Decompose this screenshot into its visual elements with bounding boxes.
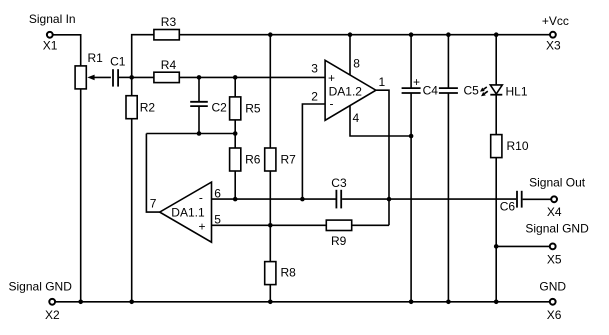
svg-text:R9: R9 — [331, 234, 347, 248]
wire DA1.2 pin 8 — [349, 35, 351, 75]
svg-text:7: 7 — [150, 196, 157, 210]
wire R1 bottom to ground rail — [80, 89, 82, 302]
wire R5 bottom lead — [234, 120, 236, 134]
svg-text:X6: X6 — [547, 308, 562, 322]
node A junction — [129, 75, 134, 80]
LED HL1 diode — [490, 85, 502, 95]
wire DA1.2 output pin 1 — [376, 90, 389, 225]
svg-text:R2: R2 — [140, 101, 156, 115]
resistor R7 body — [265, 148, 276, 171]
node C2 bottom junction — [197, 131, 202, 136]
resistor R10 body — [491, 135, 502, 158]
svg-text:C6: C6 — [500, 199, 516, 213]
wire R5 top lead — [234, 77, 236, 97]
LED HL1 arrows — [480, 87, 488, 96]
capacitor C2 — [190, 102, 208, 106]
svg-text:R8: R8 — [281, 266, 297, 280]
node pin 4 junction — [409, 134, 414, 139]
wire R8 bottom lead — [269, 285, 271, 302]
svg-text:-: - — [199, 191, 203, 205]
wire node A down to R2 — [131, 77, 133, 95]
svg-text:C5: C5 — [464, 84, 480, 98]
wire DA1.1 output up — [146, 134, 159, 213]
svg-text:X4: X4 — [547, 205, 562, 219]
node pin2 C3 junction — [300, 197, 305, 202]
svg-text:DA1.2: DA1.2 — [329, 85, 363, 99]
wire R7 bottom lead — [269, 171, 271, 225]
wire node A up to R3 — [132, 35, 154, 78]
svg-text:R10: R10 — [507, 139, 529, 153]
svg-text:+Vcc: +Vcc — [542, 14, 569, 28]
resistor R3 body — [154, 30, 179, 40]
wire DA1.1 pin 6 line — [212, 198, 336, 200]
svg-text:X3: X3 — [546, 39, 561, 53]
svg-text:4: 4 — [353, 111, 360, 125]
node output C3 junction — [387, 197, 392, 202]
node C5 ground junction — [446, 300, 451, 305]
node X5 terminal — [550, 244, 556, 250]
node X2 terminal — [49, 299, 55, 305]
wire C5 bottom lead — [447, 93, 449, 302]
capacitor C5 — [439, 88, 458, 93]
wire R2 bottom to ground rail — [131, 119, 133, 302]
node pin 8 rail junction — [348, 32, 353, 37]
svg-text:R7: R7 — [281, 153, 297, 167]
node X1 terminal — [47, 32, 53, 38]
svg-text:C1: C1 — [110, 54, 126, 68]
svg-text:Signal GND: Signal GND — [525, 221, 589, 235]
svg-text:-: - — [330, 97, 334, 111]
svg-text:DA1.1: DA1.1 — [171, 205, 205, 219]
node C5 rail junction — [446, 32, 451, 37]
capacitor C1 — [113, 69, 118, 86]
wire C2 bottom lead — [198, 106, 200, 133]
wire C4 top lead — [410, 35, 412, 88]
svg-text:C4: C4 — [423, 84, 439, 98]
op-amp U1 DA1.2 triangle — [325, 60, 376, 120]
wire DA1.2 pin 4 — [350, 106, 411, 137]
svg-text:+: + — [413, 75, 420, 89]
wire C3 right to C6 — [342, 198, 516, 200]
wire R9 left to DA1.1 pin 5 — [212, 224, 327, 226]
node C4 rail junction — [409, 32, 414, 37]
node R5 R6 junction — [233, 131, 238, 136]
wire C6 to X4 — [523, 198, 551, 200]
svg-text:R4: R4 — [161, 58, 177, 72]
wire X5 line — [496, 245, 549, 247]
capacitor C3 — [336, 190, 341, 209]
node C2 top junction — [197, 75, 202, 80]
svg-text:C2: C2 — [212, 101, 228, 115]
node R10 ground junction — [494, 300, 499, 305]
wire DA1.2 pin 2 — [302, 104, 325, 199]
svg-text:R1: R1 — [88, 51, 104, 65]
wire node A to R4 — [132, 76, 154, 78]
svg-text:Signal Out: Signal Out — [529, 176, 586, 190]
node R6 bottom junction — [233, 197, 238, 202]
svg-text:R6: R6 — [245, 153, 261, 167]
node R5 top junction — [233, 75, 238, 80]
svg-text:6: 6 — [214, 187, 221, 201]
wire R9 right lead — [352, 224, 389, 226]
wire feedback line y133 — [146, 133, 235, 135]
node X3 terminal — [550, 32, 556, 38]
svg-text:+: + — [199, 220, 206, 234]
svg-text:GND: GND — [539, 279, 566, 293]
wire HL1 to R10 — [495, 95, 497, 135]
wire R8 top lead — [269, 225, 271, 261]
resistor R5 body — [230, 97, 241, 120]
svg-text:C3: C3 — [331, 176, 347, 190]
node HL1 rail junction — [494, 32, 499, 37]
wire X1 to R1 top — [53, 35, 80, 66]
wire C5 top lead — [447, 35, 449, 88]
svg-text:Signal GND: Signal GND — [9, 280, 73, 294]
wire R6 bottom lead — [234, 171, 236, 199]
node R8 ground junction — [268, 300, 273, 305]
node R7 R8 junction — [268, 223, 273, 228]
svg-text:R3: R3 — [161, 15, 177, 29]
wire top rail R3 to X3 — [179, 34, 549, 36]
wire R10 bottom lead — [495, 158, 497, 302]
wire HL1 top lead — [495, 35, 497, 85]
wire C1 to node A — [119, 76, 132, 78]
node R1 ground junction — [78, 300, 83, 305]
svg-text:X2: X2 — [45, 308, 60, 322]
op-amp U2 DA1.1 triangle — [160, 182, 212, 242]
capacitor C6 — [517, 191, 522, 208]
wire R7 top lead — [269, 35, 271, 148]
resistor R1 potentiometer body — [75, 66, 86, 89]
node X4 terminal — [551, 196, 557, 202]
svg-text:2: 2 — [311, 89, 318, 103]
node top rail R7 junction — [268, 32, 273, 37]
resistor R1 wiper arrow — [87, 75, 111, 81]
resistor R9 body — [326, 220, 351, 230]
wire C2 top lead — [198, 77, 200, 101]
svg-text:3: 3 — [311, 61, 318, 75]
node C4 ground junction — [409, 300, 414, 305]
node X5 junction — [494, 244, 499, 249]
svg-text:R5: R5 — [245, 101, 261, 115]
svg-text:+: + — [328, 71, 335, 85]
capacitor C4 polarized — [402, 88, 421, 93]
resistor R8 body — [265, 262, 276, 285]
svg-text:X1: X1 — [43, 39, 58, 53]
resistor R6 body — [230, 148, 241, 171]
node X6 terminal — [550, 299, 556, 305]
svg-text:HL1: HL1 — [506, 84, 528, 98]
svg-text:5: 5 — [214, 213, 221, 227]
resistor R4 body — [154, 72, 179, 82]
wire ground rail — [56, 301, 550, 303]
wire R6 top lead — [234, 134, 236, 149]
svg-text:Signal In: Signal In — [29, 12, 76, 26]
svg-text:8: 8 — [353, 57, 360, 71]
wire C4 bottom lead — [410, 93, 412, 302]
node R2 ground junction — [129, 300, 134, 305]
wire R4 to DA1.2 pin 3 — [179, 76, 325, 78]
svg-text:1: 1 — [379, 75, 386, 89]
svg-text:X5: X5 — [547, 253, 562, 267]
resistor R2 body — [126, 96, 137, 119]
